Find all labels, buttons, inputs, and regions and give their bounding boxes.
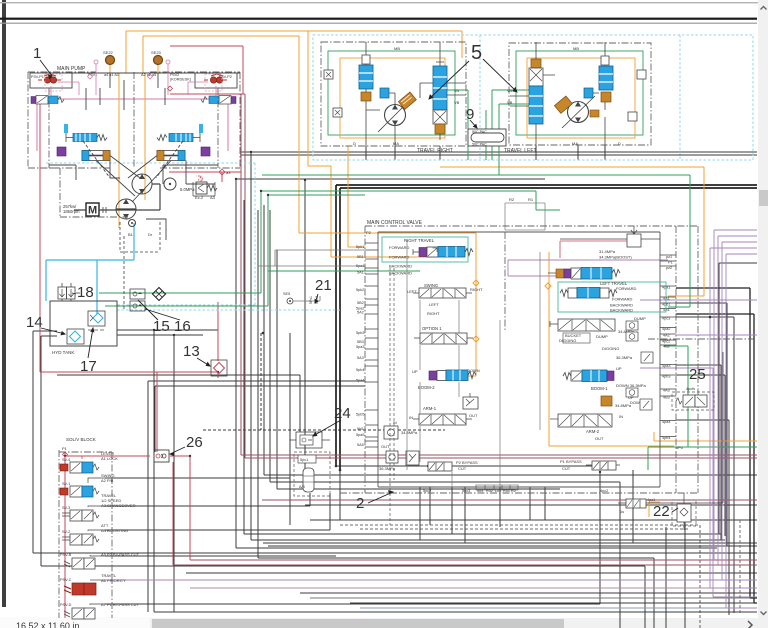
svg-text:a4 a1 A1: a4 a1 A1: [104, 73, 119, 77]
relief valve 5.0MPa: [180, 169, 231, 200]
component cyan tick left: [64, 124, 68, 133]
svg-text:a3: a3: [226, 170, 231, 175]
svg-text:1: 1: [33, 45, 41, 62]
svg-text:L#1: L#1: [495, 489, 501, 493]
svg-text:ARM-2: ARM-2: [586, 429, 600, 434]
svg-text:18: 18: [77, 284, 94, 301]
component swash valve right: [201, 96, 236, 105]
valve arm2 spool: [550, 414, 623, 441]
component filter 17: [88, 311, 105, 330]
svg-text:pz1: pz1: [666, 255, 672, 259]
wire: vertical x305 into MCV: [304, 180, 306, 487]
svg-text:SE23: SE23: [151, 50, 162, 55]
svg-text:PSV-C: PSV-C: [60, 578, 72, 582]
wire: travel dashed box: [313, 35, 753, 160]
svg-text:A7 P1 BY-PASS CUT: A7 P1 BY-PASS CUT: [101, 602, 140, 607]
wire: A5 line: [105, 555, 336, 557]
labels solenoid functions: [101, 451, 140, 607]
top gray line: [0, 2, 758, 3]
wire: cyan dashed drain: [46, 35, 753, 310]
solenoid valve SV-2: [62, 530, 105, 545]
svg-text:VA: VA: [454, 88, 459, 93]
wire pump lower frame: [49, 88, 218, 217]
svg-text:BOOM-1: BOOM-1: [591, 386, 608, 391]
svg-text:BACKWARD: BACKWARD: [389, 264, 412, 269]
svg-text:pz2: pz2: [666, 266, 672, 270]
component arm1 relief 34.8: [384, 421, 418, 439]
sensor SE23: [154, 56, 163, 65]
svg-text:34.8MPa: 34.8MPa: [401, 430, 418, 435]
component TR side boxes: [324, 70, 333, 79]
svg-text:VB: VB: [507, 100, 513, 105]
component filter 14: [67, 329, 84, 344]
svg-text:A4 BOOSTING: A4 BOOSTING: [101, 528, 128, 533]
svg-text:31.4MPa: 31.4MPa: [599, 249, 616, 254]
svg-text:5B1: 5B1: [357, 255, 364, 259]
svg-text:21: 21: [315, 277, 332, 294]
SOL/V borders: [59, 450, 112, 618]
wire: travel block bottom stubs: [366, 145, 605, 160]
wire: sol/v P1 supply: [64, 452, 66, 618]
wire: below MCV drops: [420, 470, 685, 628]
svg-text:SV-3: SV-3: [62, 506, 70, 510]
solenoid valve PSV-D: [60, 603, 105, 619]
bottom scrollbar: [0, 618, 768, 628]
svg-text:SE5: SE5: [283, 292, 290, 296]
component TL motor: [568, 102, 589, 123]
svg-text:R1: R1: [528, 197, 534, 202]
wire MCV inner rail: [378, 232, 660, 487]
wire case drain dashed: [123, 236, 125, 310]
svg-text:50C PAC: 50C PAC: [472, 130, 487, 134]
sensor SE22: [106, 56, 115, 65]
wire: right margin staircase: [676, 303, 727, 546]
svg-text:R2: R2: [511, 489, 516, 493]
component drain dot: [129, 220, 136, 227]
wire: magenta pink: [37, 99, 228, 151]
node TRAVEL RIGHT inner colored frames: [328, 51, 455, 135]
svg-text:5pc2: 5pc2: [423, 489, 431, 493]
wire: 4Pu pilot supply: [549, 252, 674, 446]
valve arm1 spool: [409, 406, 478, 425]
component port relief 36.3: [379, 444, 419, 471]
page top black border: [0, 18, 757, 20]
svg-text:DOWN 36.3MPa: DOWN 36.3MPa: [616, 383, 647, 388]
svg-text:HYD TANK: HYD TANK: [52, 350, 74, 355]
wire: SE22 SE23 stubs: [110, 64, 158, 73]
svg-text:17: 17: [80, 358, 97, 375]
wire: cyan solid: [46, 223, 134, 314]
teal frame right travel section: [382, 237, 468, 262]
svg-text:PSV-D: PSV-D: [60, 603, 72, 607]
svg-text:MA: MA: [572, 141, 578, 146]
node junction dots: [64, 151, 712, 473]
svg-text:4pc2: 4pc2: [600, 489, 608, 493]
component boom1 reliefs: [615, 388, 652, 410]
svg-text:TRAVEL LEFT: TRAVEL LEFT: [504, 148, 537, 154]
svg-text:5pa4: 5pa4: [356, 379, 364, 383]
component pump circle lower: [116, 199, 136, 219]
svg-text:VA: VA: [507, 88, 512, 93]
svg-text:Dr: Dr: [148, 232, 153, 237]
wire: orange drop to 5pk1: [348, 146, 365, 247]
component TL side boxes: [637, 70, 646, 79]
wire: pilot line y179: [236, 178, 545, 180]
valve right travel spool: [389, 238, 473, 276]
valve bucket spool: [550, 316, 646, 343]
node a3 red diamond: [219, 169, 225, 175]
component swash valve left: [31, 96, 64, 105]
solenoid valve PSV-B: [60, 553, 105, 569]
wire red relief link: [560, 241, 627, 258]
svg-text:5pb4: 5pb4: [356, 368, 364, 372]
svg-text:5pc1: 5pc1: [300, 458, 308, 462]
wire pump inner risers: [86, 73, 165, 110]
svg-text:FORWARD: FORWARD: [616, 286, 637, 291]
component boom2 compensator: [463, 393, 478, 409]
svg-text:5pk2: 5pk2: [356, 288, 364, 292]
component check pair 18: [58, 283, 80, 301]
svg-text:UP: UP: [412, 369, 418, 374]
valve left travel spool: [548, 268, 628, 287]
solenoid valve SV-3: [62, 506, 105, 521]
node P3V-P1 box: [30, 73, 72, 88]
svg-text:SV-2: SV-2: [62, 530, 70, 534]
svg-text:CUT: CUT: [458, 466, 467, 471]
svg-text:BOOM-2: BOOM-2: [418, 385, 435, 390]
component bucket port reliefs: [602, 321, 653, 363]
motor M: [86, 203, 99, 216]
valve option1 spool: [414, 326, 473, 344]
wire: orange loop to MCV P2 and boom2: [143, 36, 476, 376]
svg-text:SV-1: SV-1: [62, 482, 70, 486]
component TL parking brake cyl: [554, 96, 572, 113]
component TR parking brake cyl: [398, 92, 416, 109]
svg-text:MAIN CONTROL VALVE: MAIN CONTROL VALVE: [367, 220, 423, 226]
component cyan tick right: [199, 124, 203, 133]
component servo piston right: [157, 151, 185, 161]
svg-text:MB: MB: [573, 46, 579, 51]
svg-text:OUT: OUT: [469, 413, 478, 418]
wire: green riser left pair: [261, 191, 560, 293]
svg-text:5A3: 5A3: [357, 356, 364, 360]
wire: comp13 vertical: [40, 104, 218, 378]
component regulator left: [66, 133, 107, 142]
node R2 R1 box: [505, 203, 545, 230]
svg-text:MAIN PUMP: MAIN PUMP: [57, 66, 86, 72]
node pink pilot circles: [96, 64, 168, 95]
component TL small tan: [590, 110, 599, 117]
node SE5 sensor: [258, 250, 365, 304]
svg-text:DIGGING: DIGGING: [602, 346, 619, 351]
wire TL internals: [510, 42, 605, 146]
component turning joint 9: [468, 129, 506, 147]
svg-text:5B2: 5B2: [357, 301, 364, 305]
svg-text:24: 24: [334, 405, 351, 422]
wire: A7 line: [105, 472, 600, 604]
component HYD TANK: [50, 301, 117, 346]
valve boom2 spool: [412, 368, 480, 390]
component regulator right: [157, 133, 200, 142]
svg-text:DUMP: DUMP: [634, 316, 646, 321]
component P3V-P2 red valve: [188, 74, 232, 96]
wire: vertical x236 to bottom right bend: [236, 179, 717, 548]
svg-text:D: D: [353, 141, 356, 146]
component servo piston left: [82, 151, 110, 161]
component 25 valve: [672, 387, 714, 410]
valve boom1 spool: [563, 366, 647, 406]
wire: red crimson lines: [40, 46, 245, 618]
svg-text:SWING: SWING: [424, 283, 438, 288]
wire: tank line upper: [99, 292, 261, 294]
svg-text:5pk1: 5pk1: [356, 245, 364, 249]
svg-text:A5 P2 BY-PASS CUT: A5 P2 BY-PASS CUT: [101, 552, 140, 557]
svg-text:13: 13: [183, 343, 200, 360]
node orange diamonds: [473, 280, 551, 342]
travel right border: [321, 42, 466, 146]
svg-text:A3 CHANGEOVER: A3 CHANGEOVER: [101, 503, 136, 508]
page top gray line2: [0, 23, 757, 24]
svg-text:5B3: 5B3: [357, 340, 364, 344]
svg-text:5pb5: 5pb5: [356, 413, 364, 417]
svg-text:14: 14: [26, 314, 43, 331]
component lower pump dashed box: [120, 222, 160, 252]
svg-text:ARM-1: ARM-1: [423, 406, 437, 411]
svg-text:A1 LOCK: A1 LOCK: [101, 456, 118, 461]
svg-text:4pc1: 4pc1: [647, 498, 655, 502]
component pilot purple box right: [201, 147, 210, 156]
svg-text:P5V2: P5V2: [170, 73, 179, 77]
svg-text:34.3MPa(BOOST): 34.3MPa(BOOST): [599, 255, 632, 260]
svg-text:UP: UP: [616, 366, 622, 371]
svg-text:P1 BYPASS: P1 BYPASS: [560, 459, 582, 464]
svg-text:BACKWARD: BACKWARD: [389, 271, 412, 276]
solenoid valve SV-4: [60, 456, 105, 473]
wire swash links: [83, 141, 183, 202]
svg-text:FORWARD: FORWARD: [612, 297, 633, 302]
right margin dash-dot: [648, 338, 757, 340]
component check 16: [130, 301, 145, 311]
svg-text:FORWARD: FORWARD: [389, 245, 410, 250]
pump block border: [28, 72, 240, 168]
wire: tank line lower: [105, 305, 268, 307]
wire: A4 line: [105, 493, 330, 530]
svg-text:A/3: A/3: [299, 485, 305, 489]
svg-text:5: 5: [471, 42, 482, 64]
svg-text:SV-4: SV-4: [62, 458, 70, 462]
svg-text:MA: MA: [393, 141, 399, 146]
svg-text:16.52 x 11.60 in: 16.52 x 11.60 in: [16, 621, 79, 628]
valve travel straight spool: [560, 286, 637, 313]
svg-text:5A2: 5A2: [357, 311, 364, 315]
component check 15: [130, 289, 145, 299]
component TR counterbalance valve: [433, 60, 447, 134]
svg-text:16: 16: [174, 318, 191, 335]
wire: top return lines: [240, 152, 757, 155]
svg-text:R51: R51: [503, 489, 510, 493]
svg-text:4pcfs: 4pcfs: [686, 387, 695, 391]
node P3V-P2 box: [195, 73, 237, 88]
svg-text:1s: 1s: [620, 510, 624, 514]
left window edge bar: [2, 0, 6, 607]
wire: orange pump internals: [119, 73, 145, 228]
svg-text:22: 22: [653, 503, 670, 520]
wire: thick mains P1 P2: [336, 185, 757, 603]
right port ticks: [662, 255, 683, 450]
component TR pilot blue box: [380, 88, 389, 98]
component 5pc1 accumulator: [294, 452, 330, 496]
svg-text:RIGHT: RIGHT: [427, 311, 440, 316]
wire: travel VA VB links: [447, 90, 529, 175]
component pilot gear pump: [164, 178, 176, 190]
bottom port labels: [423, 489, 516, 493]
svg-text:P3V-P1: P3V-P1: [31, 75, 44, 79]
svg-text:d#4: d#4: [477, 489, 483, 493]
svg-text:2: 2: [356, 495, 364, 512]
svg-text:CUT: CUT: [562, 466, 571, 471]
component TL pilot blue box: [584, 88, 593, 98]
svg-text:IN: IN: [393, 421, 397, 425]
svg-text:OUT: OUT: [381, 444, 390, 449]
svg-text:P2 BYPASS: P2 BYPASS: [456, 460, 478, 465]
svg-text:IN: IN: [619, 414, 623, 419]
component 26 shuttle: [154, 450, 169, 462]
wire: vertical x251 bend: [251, 152, 725, 540]
svg-text:5pa3: 5pa3: [356, 345, 364, 349]
left port ticks: [365, 243, 378, 447]
wire: a3 relief drop: [169, 172, 241, 182]
wire: A3 line: [105, 493, 310, 506]
component 22 check box: [672, 493, 696, 530]
component TL brake valve: [599, 51, 613, 102]
svg-text:(KORDESK): (KORDESK): [170, 78, 192, 82]
wire: orange loop SE to MCV 5B1: [126, 31, 462, 257]
wire: right margin orange riser 4A1: [440, 167, 704, 296]
svg-text:B1: B1: [128, 232, 134, 237]
wire: pump pilot red rect: [170, 46, 245, 94]
svg-text:VB: VB: [454, 100, 460, 105]
svg-text:P3V-P2: P3V-P2: [219, 75, 232, 79]
svg-text:OPTION 1: OPTION 1: [422, 326, 442, 331]
valve swing spool: [407, 283, 483, 316]
svg-text:M: M: [88, 205, 97, 217]
svg-text:FORWARD: FORWARD: [389, 255, 410, 260]
node TRAVEL LEFT inner colored frames: [516, 51, 643, 135]
node pink diamonds: [88, 74, 153, 79]
svg-text:IN: IN: [409, 415, 413, 420]
valve P1 bypass cut: [560, 459, 620, 493]
svg-text:4Pu: 4Pu: [676, 446, 683, 450]
wire pump top manifold line: [66, 72, 240, 74]
svg-text:34.8MPa: 34.8MPa: [615, 403, 632, 408]
wire: black thin routing: [33, 145, 757, 628]
component 24 shuttle: [290, 432, 330, 448]
svg-text:15: 15: [153, 318, 170, 335]
component 22 pilot valve: [618, 352, 723, 514]
svg-text:P1: P1: [62, 446, 68, 451]
svg-text:5pb3: 5pb3: [356, 331, 364, 335]
svg-text:RIGHT TRAVEL: RIGHT TRAVEL: [404, 238, 435, 243]
wire: 4B1 riser long pilot: [262, 175, 690, 307]
svg-text:36.3MPa: 36.3MPa: [379, 466, 396, 471]
wire: 4B2 teal drop: [648, 346, 757, 470]
svg-text:LEFT: LEFT: [429, 302, 439, 307]
svg-text:36.3MPa: 36.3MPa: [616, 355, 633, 360]
svg-text:MB: MB: [394, 46, 400, 51]
svg-text:SOL/V BLOCK: SOL/V BLOCK: [66, 437, 96, 442]
svg-text:A2 P/B: A2 P/B: [101, 478, 114, 483]
svg-text:P2: P2: [366, 230, 372, 235]
svg-text:BACKWARD: BACKWARD: [610, 308, 633, 313]
wire: dashed bottom collectors: [340, 525, 700, 628]
svg-text:D: D: [618, 141, 621, 146]
component pump circle upper: [132, 174, 152, 194]
svg-text:26: 26: [186, 434, 203, 451]
wire: orange pilot lines: [110, 31, 757, 517]
svg-text:5Ps1: 5Ps1: [309, 296, 313, 304]
wire: mid risers with bends: [264, 205, 757, 475]
right column relief boost: [560, 226, 660, 260]
svg-text:5b5: 5b5: [357, 427, 363, 431]
wire: bottom right orange: [649, 432, 757, 517]
svg-text:TRAVEL RIGHT: TRAVEL RIGHT: [417, 148, 453, 154]
svg-text:50C PAC: 50C PAC: [472, 143, 487, 147]
svg-text:5A5: 5A5: [357, 443, 364, 447]
svg-text:DUMP: DUMP: [596, 334, 608, 339]
wire: green pilot lines: [99, 90, 757, 470]
wire: bottom bundle horizontals: [305, 466, 757, 520]
MCV borders: [340, 226, 698, 493]
right scrollbar: [758, 0, 768, 618]
svg-text:25: 25: [689, 366, 706, 383]
component TL counterbalance valve: [529, 59, 543, 124]
solenoid valve PSV-C red: [60, 578, 105, 595]
svg-text:SE22: SE22: [103, 50, 114, 55]
MCV internal verticals: [407, 240, 540, 487]
svg-text:OUT: OUT: [595, 436, 604, 441]
valve P2 bypass cut: [422, 460, 478, 471]
svg-text:RIGHT: RIGHT: [470, 287, 483, 292]
component TR brake valve: [359, 50, 373, 101]
solenoid valve SV-1: [60, 478, 105, 497]
svg-text:A6 PRIORITY: A6 PRIORITY: [101, 578, 126, 583]
wire: maroon long lines: [173, 94, 757, 588]
svg-text:5pa5: 5pa5: [356, 433, 364, 437]
component TR motor: [385, 105, 406, 126]
component P3V-P1 red valve: [31, 74, 79, 96]
travel left border: [509, 43, 651, 145]
node teal frame left travel: [558, 282, 666, 312]
wire TR internals: [366, 42, 466, 146]
wire dashed Dr line: [390, 268, 394, 525]
svg-text:R2: R2: [509, 197, 515, 202]
wire: purple lines: [105, 230, 757, 608]
svg-text:PSV-B: PSV-B: [60, 553, 72, 557]
svg-text:R52: R52: [486, 489, 493, 493]
component pilot purple box left: [57, 147, 66, 156]
wire motor shaft: [74, 184, 160, 210]
wire: tank to sol verticals: [117, 330, 757, 612]
component 13 check w red: [211, 360, 227, 376]
wire: A1 lock line through comp26: [65, 456, 190, 565]
svg-text:5pc3: 5pc3: [462, 489, 470, 493]
svg-text:5A1: 5A1: [357, 271, 364, 275]
svg-text:DIGGING: DIGGING: [559, 338, 576, 343]
component line filter diamond: [153, 288, 166, 301]
wire: tank drain left pair: [33, 331, 757, 628]
